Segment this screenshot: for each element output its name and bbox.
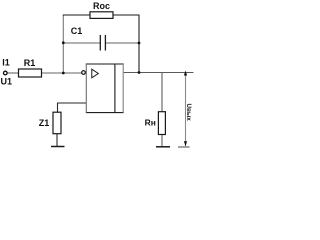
- resistor Roc: [90, 12, 113, 19]
- wire input terminal to R1: [7, 72, 18, 74]
- op-amp U1 box: [86, 64, 123, 113]
- svg-text:Roc: Roc: [93, 1, 110, 11]
- junction node at C1 left: [62, 41, 65, 44]
- svg-text:C1: C1: [71, 26, 83, 36]
- wire R1 to op-amp inverting input: [42, 72, 82, 74]
- dimension end bar bottom: [178, 146, 190, 148]
- svg-text:Uвых: Uвых: [185, 104, 192, 122]
- dimension line Uout: [185, 74, 187, 147]
- op-amp inner divider line: [114, 64, 116, 113]
- wire right feedback vertical: [138, 15, 140, 73]
- svg-text:R1: R1: [24, 58, 36, 68]
- wire op-amp output: [123, 72, 193, 74]
- svg-text:I1: I1: [2, 57, 10, 67]
- ground left: [51, 146, 65, 148]
- wire C1 row left: [63, 42, 100, 44]
- op-amp triangle symbol: [92, 69, 99, 78]
- wire non-inverting input horizontal: [58, 102, 87, 104]
- wire C1 row right: [106, 42, 139, 44]
- svg-text:Z1: Z1: [39, 118, 50, 128]
- dimension arrow up: [184, 71, 187, 76]
- wire output to Rn top: [161, 73, 163, 113]
- wire Rn bottom to ground: [161, 135, 163, 148]
- junction node at C1 right: [138, 42, 141, 45]
- capacitor C1: [100, 35, 105, 51]
- resistor R1: [19, 69, 42, 77]
- ground right: [156, 146, 170, 148]
- wire non-inverting input vertical to Z1: [57, 103, 59, 113]
- svg-text:Rн: Rн: [145, 118, 156, 128]
- dimension arrow down: [184, 141, 187, 146]
- junction node at output: [138, 71, 141, 74]
- wire left feedback vertical: [62, 15, 64, 74]
- wire Z1 bottom to ground: [56, 134, 58, 147]
- junction node at inverting input: [62, 72, 65, 75]
- resistor Rn: [158, 112, 165, 135]
- input terminal I1: [4, 71, 8, 75]
- resistor Z1: [53, 112, 61, 134]
- op-amp inverting input circle: [82, 71, 86, 75]
- wire top feedback horizontal: [63, 14, 140, 16]
- svg-text:U1: U1: [1, 76, 13, 86]
